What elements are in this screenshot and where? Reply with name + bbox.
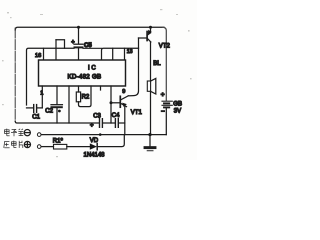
node speaker-rail junction	[148, 133, 151, 136]
text yadianpian (piezo plate)	[4, 141, 23, 148]
svg-text:9: 9	[122, 89, 125, 95]
wire lower rail	[41, 134, 166, 136]
resistor R2	[76, 86, 91, 107]
ground	[145, 135, 155, 151]
svg-text:R1*: R1*	[53, 139, 64, 145]
wire VT1 collector riser	[128, 38, 138, 96]
svg-text:VT1: VT1	[131, 110, 143, 116]
diode VD 1N4148	[84, 138, 106, 158]
wire pin16 horizontal bus	[27, 48, 75, 105]
svg-text:1N4148: 1N4148	[84, 152, 106, 158]
wire C5 to IC pin	[78, 48, 80, 60]
wire R1 branch	[41, 146, 53, 148]
terminal piezo positive	[37, 145, 41, 149]
svg-text:C3: C3	[93, 113, 101, 119]
svg-text:VD: VD	[90, 138, 99, 144]
transistor VT1	[120, 96, 142, 116]
svg-text:−: −	[161, 109, 165, 115]
wire R1 to VD	[67, 146, 90, 148]
text dianzibi (electronic pen)	[5, 129, 24, 137]
terminal pen negative	[37, 133, 41, 137]
wire top V+ rail	[15, 27, 164, 30]
svg-text:C4: C4	[112, 113, 120, 119]
svg-text:+: +	[161, 92, 165, 99]
svg-text:C2: C2	[45, 108, 53, 114]
battery GB	[161, 92, 182, 115]
wire left border	[14, 28, 16, 122]
wire VT2 collector to speaker	[150, 42, 152, 81]
capacitor C1	[27, 105, 43, 121]
svg-text:16: 16	[35, 53, 41, 59]
speaker BL	[147, 61, 161, 94]
wire pin8 down to VT1 base node	[110, 86, 112, 123]
wire jog over C5 label	[56, 40, 65, 49]
wire pin stub x56	[55, 40, 57, 60]
capacitor C3	[90, 113, 115, 129]
capacitor C4	[112, 113, 125, 127]
wire bus under C5 to right	[83, 47, 102, 49]
node VD junction	[99, 133, 102, 136]
capacitor C5	[71, 39, 92, 49]
wire pin3 down	[68, 86, 70, 123]
svg-text:+: +	[90, 123, 94, 129]
svg-text:KD-482 GB: KD-482 GB	[68, 74, 102, 81]
IC U1 KD-482 music chip	[39, 60, 126, 86]
wire VT1 emitter down	[124, 106, 126, 134]
wire pin2 down	[56, 86, 58, 104]
svg-text:I C: I C	[88, 65, 96, 71]
wire C2 to ground rail	[56, 108, 58, 123]
wire VD branch to rail via emitter node	[98, 135, 125, 147]
wire battery minus down	[165, 108, 167, 134]
wire pin stub x124.5 pin13	[124, 48, 126, 60]
svg-text:GB: GB	[173, 101, 182, 107]
wire pin1 down	[41, 86, 43, 108]
node junction on rail above C5	[77, 26, 80, 29]
wire VT2 base	[139, 37, 147, 39]
svg-text:+: +	[71, 39, 75, 45]
wire speaker to bottom rail	[150, 91, 152, 134]
wire pin16 stub	[43, 48, 45, 60]
capacitor C2	[45, 105, 62, 115]
symbol circle minus	[24, 130, 30, 136]
wire rail to C5	[78, 27, 80, 43]
svg-text:C1: C1	[32, 115, 40, 121]
resistor R1	[53, 139, 67, 149]
wire base to VT1	[111, 102, 120, 104]
node base junction	[110, 101, 113, 104]
svg-text:13: 13	[127, 49, 133, 55]
wire pin stub x112.7	[112, 48, 114, 60]
wire bottom ground rail left segment	[15, 122, 99, 124]
wire top-right corner to battery	[163, 27, 166, 100]
svg-text:3V: 3V	[174, 108, 181, 114]
svg-text:R2: R2	[82, 94, 90, 100]
symbol circle plus	[24, 141, 30, 147]
svg-text:BL: BL	[153, 61, 161, 67]
wire top-right bus y48	[102, 48, 139, 60]
wire pin stub x100	[100, 86, 102, 90]
transistor VT2	[147, 26, 170, 50]
wire faint scan specks	[2, 9, 192, 157]
svg-text:VT2: VT2	[159, 44, 171, 50]
